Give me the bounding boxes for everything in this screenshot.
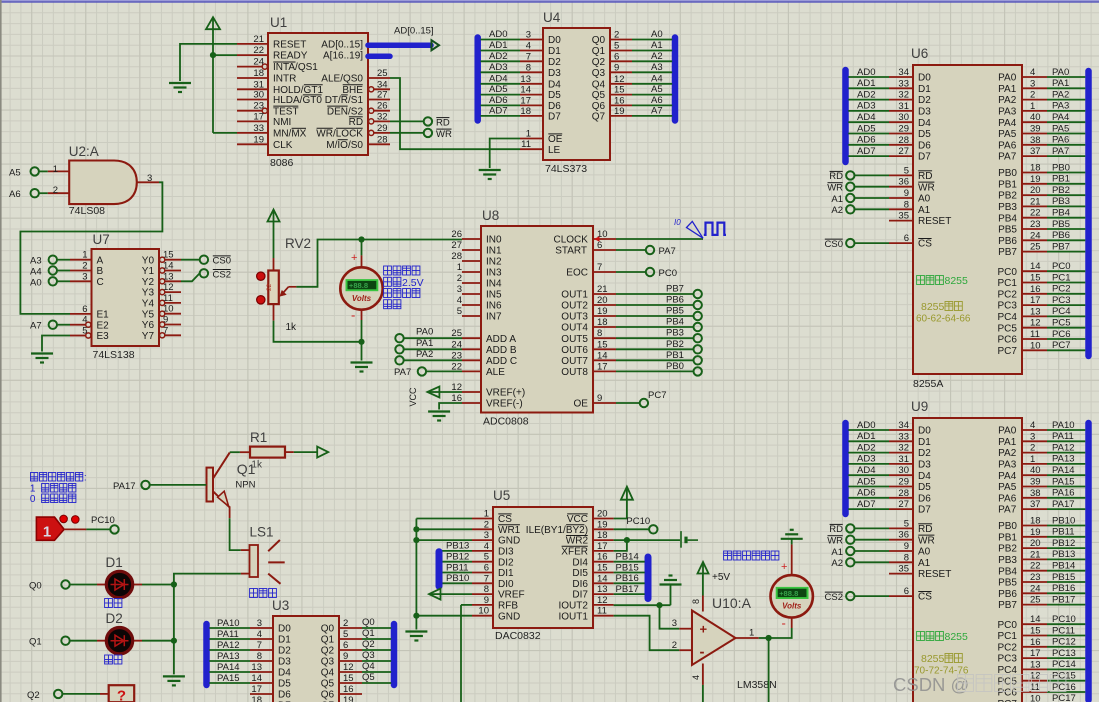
- svg-text:18: 18: [1030, 516, 1041, 527]
- svg-text:A4: A4: [30, 267, 42, 278]
- svg-text:Q4: Q4: [321, 668, 335, 679]
- svg-text:2: 2: [1030, 443, 1035, 454]
- svg-text:PC2: PC2: [998, 642, 1018, 653]
- svg-text:AD0: AD0: [857, 420, 875, 431]
- svg-text:9: 9: [343, 651, 348, 662]
- svg-text:10: 10: [163, 304, 174, 315]
- svg-text:1: 1: [457, 262, 462, 273]
- svg-text:AD5: AD5: [857, 476, 875, 487]
- svg-text:AD[0..15]: AD[0..15]: [321, 40, 363, 51]
- svg-text:PC1: PC1: [1052, 272, 1070, 283]
- svg-text:Q5: Q5: [592, 90, 606, 101]
- svg-text:PC0: PC0: [1052, 261, 1070, 272]
- svg-text:Volts: Volts: [782, 602, 802, 611]
- svg-text:PA5: PA5: [998, 482, 1017, 493]
- svg-text:IN1: IN1: [486, 246, 502, 257]
- svg-text:AD1: AD1: [857, 78, 875, 89]
- svg-text:AD1: AD1: [489, 40, 507, 51]
- svg-text:26: 26: [451, 229, 462, 240]
- svg-text:24: 24: [1030, 230, 1041, 241]
- svg-text:RV2: RV2: [285, 236, 311, 251]
- svg-text:+: +: [700, 622, 708, 637]
- svg-text:D6: D6: [918, 140, 931, 151]
- svg-text:D1: D1: [918, 437, 931, 448]
- svg-text:AD2: AD2: [489, 51, 507, 62]
- svg-text:PB16: PB16: [1052, 583, 1075, 594]
- svg-text:1: 1: [82, 250, 87, 261]
- svg-text:LS1: LS1: [250, 525, 274, 540]
- svg-text:RFB: RFB: [498, 601, 518, 612]
- svg-text:A1: A1: [831, 194, 843, 205]
- svg-text:PA13: PA13: [1052, 454, 1075, 465]
- svg-text:D2: D2: [918, 448, 931, 459]
- svg-text:A2: A2: [831, 205, 843, 216]
- svg-text:PA1: PA1: [998, 437, 1017, 448]
- svg-text:8: 8: [904, 552, 909, 563]
- svg-text:A3: A3: [30, 256, 42, 267]
- svg-text:OUT6: OUT6: [561, 345, 588, 356]
- svg-text:U3: U3: [272, 598, 289, 613]
- svg-text:8: 8: [904, 199, 909, 210]
- svg-text:DI3: DI3: [498, 547, 514, 558]
- svg-text:PB3: PB3: [998, 202, 1017, 213]
- svg-text:PB17: PB17: [616, 584, 639, 595]
- svg-text:A6: A6: [651, 95, 663, 106]
- svg-text:PA12: PA12: [217, 640, 240, 651]
- svg-text:D1: D1: [278, 635, 291, 646]
- svg-text:29: 29: [898, 477, 909, 488]
- svg-text:A0: A0: [30, 277, 42, 288]
- svg-text:24: 24: [1030, 583, 1041, 594]
- svg-text:WR1: WR1: [498, 525, 521, 536]
- svg-text:3: 3: [526, 30, 531, 41]
- svg-text:18: 18: [597, 317, 608, 328]
- svg-text:-: -: [782, 616, 786, 631]
- svg-text:11: 11: [521, 139, 531, 150]
- svg-text:3: 3: [257, 618, 262, 629]
- svg-text:START: START: [555, 246, 587, 257]
- svg-text:CLK: CLK: [273, 140, 293, 151]
- svg-text:16: 16: [614, 95, 625, 106]
- svg-text:5: 5: [457, 306, 462, 317]
- svg-text:A0: A0: [651, 29, 663, 40]
- svg-text:12: 12: [1030, 318, 1041, 329]
- svg-text:PB4: PB4: [666, 317, 684, 328]
- svg-text:8: 8: [597, 328, 602, 339]
- svg-text:1: 1: [30, 484, 36, 495]
- svg-text:7: 7: [526, 51, 531, 62]
- svg-text:D0: D0: [918, 426, 931, 437]
- svg-text:9: 9: [904, 541, 909, 552]
- svg-text:D3: D3: [548, 68, 561, 79]
- svg-text:I0: I0: [674, 218, 681, 227]
- svg-text:PB14: PB14: [1052, 561, 1075, 572]
- svg-text:U4: U4: [543, 10, 561, 25]
- svg-text:Y3: Y3: [142, 288, 155, 299]
- svg-text:PA14: PA14: [1052, 465, 1075, 476]
- svg-text:PA2: PA2: [998, 95, 1017, 106]
- svg-text:30: 30: [253, 90, 264, 101]
- svg-text:Y4: Y4: [142, 299, 155, 310]
- svg-text:CS: CS: [498, 514, 512, 525]
- svg-text:PA3: PA3: [1052, 101, 1069, 112]
- svg-text:PC10: PC10: [1052, 614, 1076, 625]
- svg-text:DI1: DI1: [498, 568, 514, 579]
- svg-text:PC7: PC7: [998, 346, 1018, 357]
- svg-text:17: 17: [1030, 295, 1041, 306]
- svg-text:READY: READY: [273, 51, 308, 62]
- svg-text:DEN/S2: DEN/S2: [327, 106, 364, 117]
- svg-text:13: 13: [520, 74, 531, 85]
- svg-text::: :: [84, 473, 87, 484]
- svg-text:AD6: AD6: [489, 95, 507, 106]
- svg-text:AD0: AD0: [857, 67, 875, 78]
- svg-text:D5: D5: [918, 129, 931, 140]
- svg-text:PB14: PB14: [616, 552, 639, 563]
- svg-text:VREF(+): VREF(+): [486, 388, 525, 399]
- svg-text:21: 21: [597, 284, 608, 295]
- svg-text:PC5: PC5: [998, 323, 1018, 334]
- svg-text:16: 16: [1030, 284, 1041, 295]
- svg-text:8255: 8255: [945, 631, 969, 643]
- svg-text:PA6: PA6: [998, 493, 1017, 504]
- svg-text:34: 34: [898, 67, 909, 78]
- svg-text:ADD C: ADD C: [486, 356, 517, 367]
- svg-text:WR/LOCK: WR/LOCK: [316, 129, 363, 140]
- svg-text:RD: RD: [829, 171, 843, 182]
- svg-text:PB12: PB12: [446, 552, 469, 563]
- svg-text:Y1: Y1: [142, 266, 155, 277]
- svg-text:22: 22: [266, 283, 273, 291]
- svg-text:PB5: PB5: [666, 306, 684, 317]
- svg-text:9: 9: [484, 595, 489, 606]
- svg-text:Q3: Q3: [362, 650, 375, 661]
- svg-text:AD3: AD3: [489, 62, 507, 73]
- svg-text:IN5: IN5: [486, 290, 502, 301]
- svg-text:PA4: PA4: [998, 118, 1017, 129]
- svg-text:U5: U5: [493, 488, 510, 503]
- svg-text:3: 3: [82, 271, 87, 282]
- svg-text:3: 3: [484, 530, 489, 541]
- svg-text:30: 30: [898, 465, 909, 476]
- svg-text:2: 2: [53, 185, 58, 196]
- svg-text:B: B: [97, 266, 104, 277]
- svg-text:32: 32: [898, 443, 909, 454]
- svg-text:WR: WR: [918, 182, 935, 193]
- svg-text:8255: 8255: [921, 653, 945, 665]
- svg-text:11: 11: [163, 293, 173, 304]
- svg-text:OUT2: OUT2: [561, 301, 588, 312]
- svg-text:PC3: PC3: [1052, 295, 1070, 306]
- svg-text:Q1: Q1: [362, 628, 375, 639]
- svg-text:3: 3: [672, 618, 677, 629]
- svg-text:3: 3: [147, 173, 152, 184]
- svg-text:13: 13: [1030, 306, 1041, 317]
- svg-text:OE: OE: [548, 134, 563, 145]
- svg-text:LE: LE: [548, 145, 561, 156]
- svg-text:D4: D4: [548, 79, 561, 90]
- svg-text:3: 3: [1030, 431, 1035, 442]
- svg-text:18: 18: [251, 695, 262, 702]
- svg-text:E1: E1: [97, 310, 110, 321]
- svg-text:IOUT1: IOUT1: [559, 611, 589, 622]
- svg-text:18: 18: [253, 68, 264, 79]
- svg-text:A1: A1: [831, 547, 843, 558]
- svg-text:GND: GND: [498, 611, 520, 622]
- svg-text:PA14: PA14: [217, 662, 240, 673]
- svg-text:WR: WR: [827, 536, 843, 547]
- svg-text:25: 25: [377, 68, 388, 79]
- svg-text:VCC: VCC: [567, 514, 588, 525]
- svg-text:CS2: CS2: [825, 592, 843, 603]
- svg-text:5: 5: [82, 326, 87, 337]
- svg-text:DI6: DI6: [572, 579, 588, 590]
- svg-text:ADD B: ADD B: [486, 345, 517, 356]
- svg-text:25: 25: [1030, 242, 1041, 253]
- svg-text:PA3: PA3: [998, 107, 1017, 118]
- svg-text:14: 14: [520, 85, 531, 96]
- svg-text:DI4: DI4: [572, 557, 588, 568]
- svg-text:74LS373: 74LS373: [545, 163, 587, 175]
- svg-text:PB6: PB6: [998, 236, 1017, 247]
- svg-text:A0: A0: [918, 194, 931, 205]
- svg-text:PA3: PA3: [998, 460, 1017, 471]
- svg-text:DI2: DI2: [498, 557, 514, 568]
- svg-text:Q7: Q7: [592, 112, 606, 123]
- svg-text:Q3: Q3: [592, 68, 606, 79]
- svg-text:IOUT2: IOUT2: [559, 601, 589, 612]
- svg-text:PB17: PB17: [1052, 594, 1075, 605]
- svg-text:Q1: Q1: [321, 635, 335, 646]
- svg-text:CS2: CS2: [213, 269, 231, 280]
- svg-text:PA4: PA4: [1052, 112, 1069, 123]
- svg-text:15: 15: [597, 563, 608, 574]
- svg-text:E3: E3: [97, 331, 110, 342]
- svg-text:D2: D2: [278, 646, 291, 657]
- svg-text:3: 3: [1030, 78, 1035, 89]
- svg-text:PA15: PA15: [217, 673, 240, 684]
- svg-text:+5V: +5V: [712, 572, 730, 583]
- svg-text:PB13: PB13: [1052, 549, 1075, 560]
- svg-text:VREF(-): VREF(-): [486, 399, 523, 410]
- svg-text:AD4: AD4: [857, 112, 875, 123]
- svg-text:CS: CS: [918, 239, 932, 250]
- svg-text:A: A: [97, 255, 104, 266]
- svg-text:DI7: DI7: [572, 590, 588, 601]
- svg-text:PC3: PC3: [998, 654, 1018, 665]
- svg-text:PA2: PA2: [998, 448, 1017, 459]
- svg-text:PA0: PA0: [416, 327, 433, 338]
- svg-text:18: 18: [520, 106, 531, 117]
- svg-text:17: 17: [1030, 648, 1041, 659]
- svg-text:Y0: Y0: [142, 255, 155, 266]
- svg-text:PA10: PA10: [1052, 420, 1075, 431]
- svg-text:PC6: PC6: [998, 688, 1018, 699]
- svg-text:PB1: PB1: [1052, 174, 1070, 185]
- svg-text:7: 7: [484, 573, 489, 584]
- svg-text:31: 31: [898, 454, 909, 465]
- svg-text:20: 20: [1030, 538, 1041, 549]
- svg-text:IN3: IN3: [486, 268, 502, 279]
- svg-text:5: 5: [904, 165, 909, 176]
- svg-text:PB7: PB7: [1052, 241, 1070, 252]
- svg-text:5: 5: [904, 518, 909, 529]
- svg-text:Q2: Q2: [321, 646, 335, 657]
- svg-text:D5: D5: [278, 679, 291, 690]
- svg-text:VCC: VCC: [408, 387, 418, 407]
- svg-text:MN/MX: MN/MX: [273, 129, 307, 140]
- svg-text:17: 17: [597, 541, 608, 552]
- svg-text:U1: U1: [270, 15, 287, 30]
- svg-text:23: 23: [1030, 219, 1041, 230]
- svg-text:PC13: PC13: [1052, 648, 1076, 659]
- svg-text:Y6: Y6: [142, 320, 155, 331]
- svg-text:14: 14: [597, 350, 608, 361]
- svg-text:13: 13: [163, 271, 174, 282]
- svg-text:PB0: PB0: [1052, 162, 1070, 173]
- svg-text:13: 13: [1030, 659, 1041, 670]
- svg-text:D7: D7: [918, 505, 931, 516]
- svg-text:PB6: PB6: [1052, 230, 1070, 241]
- svg-text:4: 4: [1030, 420, 1035, 431]
- svg-text:1: 1: [53, 164, 58, 175]
- svg-text:PC3: PC3: [998, 301, 1018, 312]
- svg-text:16: 16: [343, 684, 354, 695]
- svg-text:PC2: PC2: [1052, 284, 1070, 295]
- svg-text:D6: D6: [548, 101, 561, 112]
- svg-text:WR2: WR2: [566, 536, 589, 547]
- svg-text:2.5V: 2.5V: [402, 277, 424, 289]
- svg-text:CS0: CS0: [213, 256, 231, 267]
- svg-text:Q2: Q2: [362, 639, 375, 650]
- svg-text:10: 10: [1030, 340, 1041, 351]
- svg-text:1: 1: [484, 509, 489, 520]
- svg-text:23: 23: [253, 101, 264, 112]
- svg-text:PB5: PB5: [1052, 219, 1070, 230]
- svg-text:6: 6: [597, 240, 602, 251]
- svg-text:R1: R1: [250, 430, 267, 445]
- svg-text:14: 14: [163, 261, 174, 272]
- svg-text:17: 17: [251, 684, 262, 695]
- svg-text:22: 22: [1030, 561, 1041, 572]
- svg-text:XFER: XFER: [561, 547, 588, 558]
- svg-text:PB10: PB10: [1052, 515, 1075, 526]
- svg-text:PB11: PB11: [446, 562, 469, 573]
- svg-text:PB4: PB4: [1052, 208, 1070, 219]
- svg-text:D2: D2: [918, 95, 931, 106]
- svg-text:WR: WR: [436, 129, 452, 140]
- svg-text:U2:A: U2:A: [69, 144, 99, 159]
- svg-text:4: 4: [1030, 67, 1035, 78]
- svg-text:4: 4: [257, 629, 262, 640]
- svg-text:+: +: [351, 252, 357, 264]
- svg-text:CS0: CS0: [825, 239, 843, 250]
- svg-text:D1: D1: [548, 46, 561, 57]
- svg-text:PB16: PB16: [616, 573, 639, 584]
- svg-text:PC0: PC0: [659, 268, 677, 279]
- svg-text:21: 21: [1030, 549, 1041, 560]
- svg-text:D4: D4: [278, 668, 291, 679]
- svg-text:15: 15: [597, 339, 608, 350]
- svg-text:Q6: Q6: [321, 690, 335, 701]
- svg-text:INTA/QS1: INTA/QS1: [273, 62, 318, 73]
- svg-text:15: 15: [1030, 626, 1041, 637]
- svg-text:8086: 8086: [270, 157, 294, 169]
- svg-text:A5: A5: [9, 167, 21, 178]
- svg-text:+88.8: +88.8: [779, 589, 798, 598]
- svg-text:PA7: PA7: [1052, 146, 1069, 157]
- svg-text:18: 18: [1030, 163, 1041, 174]
- svg-text:Q3: Q3: [321, 657, 335, 668]
- svg-text:D0: D0: [548, 35, 561, 46]
- svg-text:8: 8: [691, 599, 701, 604]
- svg-text:PA11: PA11: [1052, 431, 1074, 442]
- svg-text:PC1: PC1: [998, 278, 1018, 289]
- svg-text:19: 19: [253, 134, 264, 145]
- svg-text:Q1: Q1: [592, 46, 606, 57]
- svg-text:PA2: PA2: [416, 349, 433, 360]
- svg-text:32: 32: [377, 111, 388, 122]
- svg-text:26: 26: [377, 101, 388, 112]
- svg-text:AD6: AD6: [857, 488, 875, 499]
- svg-text:20: 20: [597, 509, 608, 520]
- svg-text:CS: CS: [918, 592, 932, 603]
- svg-text:LM358N: LM358N: [737, 679, 777, 691]
- svg-text:RD: RD: [436, 117, 450, 128]
- svg-text:74LS08: 74LS08: [69, 205, 105, 217]
- svg-text:8255: 8255: [921, 301, 945, 313]
- svg-text:10: 10: [1030, 693, 1041, 702]
- svg-text:PB3: PB3: [666, 328, 684, 339]
- svg-text:PB5: PB5: [998, 225, 1017, 236]
- svg-text:11: 11: [1030, 329, 1040, 340]
- svg-text:14: 14: [251, 673, 262, 684]
- svg-text:ALE: ALE: [486, 367, 505, 378]
- svg-text:PB2: PB2: [666, 339, 684, 350]
- svg-text:Q5: Q5: [362, 672, 375, 683]
- svg-text:PB1: PB1: [666, 350, 684, 361]
- svg-text:ILE(BY1/BY2): ILE(BY1/BY2): [526, 525, 588, 536]
- svg-text:D7: D7: [548, 112, 561, 123]
- svg-text:PC10: PC10: [626, 516, 650, 527]
- svg-text:1: 1: [749, 628, 754, 639]
- svg-text:D1: D1: [918, 84, 931, 95]
- svg-text:RESET: RESET: [918, 569, 951, 580]
- svg-text:12: 12: [614, 74, 625, 85]
- svg-text:17: 17: [253, 111, 264, 122]
- svg-text:DI0: DI0: [498, 579, 514, 590]
- svg-text:Q2: Q2: [27, 690, 40, 701]
- svg-text:19: 19: [597, 306, 608, 317]
- svg-text:D0: D0: [278, 624, 291, 635]
- svg-text:25: 25: [1030, 595, 1041, 606]
- svg-text:A6: A6: [9, 189, 21, 200]
- svg-text:AD4: AD4: [489, 73, 507, 84]
- svg-text:D5: D5: [918, 482, 931, 493]
- svg-text:PC15: PC15: [1052, 671, 1076, 682]
- svg-text:13: 13: [597, 584, 608, 595]
- svg-text:19: 19: [1030, 174, 1041, 185]
- svg-text:PA11: PA11: [217, 629, 239, 640]
- svg-text:12: 12: [163, 282, 174, 293]
- svg-text:A[16..19]: A[16..19]: [323, 51, 363, 62]
- svg-text:7: 7: [597, 262, 602, 273]
- svg-text:PA10: PA10: [217, 618, 240, 629]
- svg-text:D6: D6: [918, 493, 931, 504]
- svg-text:PA17: PA17: [113, 481, 136, 492]
- svg-text:TEST: TEST: [273, 106, 299, 117]
- svg-text:OUT7: OUT7: [561, 356, 588, 367]
